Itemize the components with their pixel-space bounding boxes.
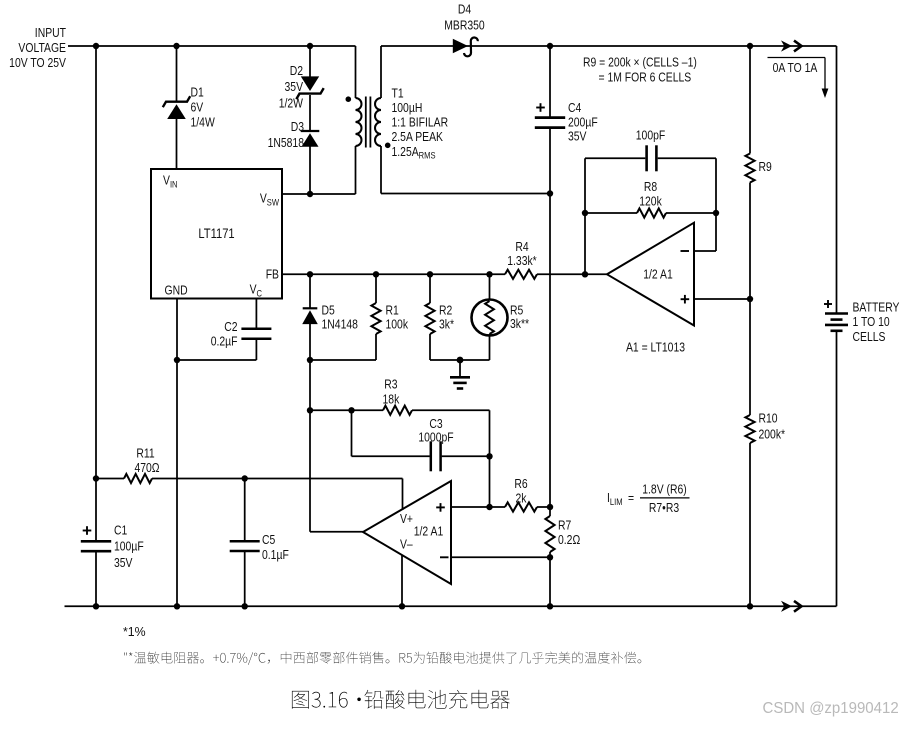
svg-text:D4: D4 — [458, 2, 472, 16]
svg-text:1/2 A1: 1/2 A1 — [643, 267, 672, 281]
svg-text:R9: R9 — [759, 160, 772, 174]
svg-text:0.2Ω: 0.2Ω — [558, 533, 580, 547]
svg-text:200k*: 200k* — [759, 428, 786, 442]
svg-text:D5: D5 — [322, 303, 336, 317]
svg-text:*1%: *1% — [123, 625, 146, 639]
svg-text:D2: D2 — [290, 64, 303, 78]
svg-text:VOLTAGE: VOLTAGE — [18, 41, 66, 55]
svg-text:D3: D3 — [291, 120, 305, 134]
svg-text:2.5A PEAK: 2.5A PEAK — [392, 130, 444, 144]
svg-text:100µF: 100µF — [114, 539, 144, 553]
svg-text:35V: 35V — [114, 556, 133, 570]
svg-text:LT1171: LT1171 — [198, 226, 234, 241]
svg-text:2k: 2k — [516, 491, 527, 505]
svg-text:R1: R1 — [386, 303, 399, 317]
svg-text:0A TO 1A: 0A TO 1A — [773, 61, 818, 75]
svg-text:C1: C1 — [114, 524, 127, 538]
svg-text:FB: FB — [266, 267, 279, 281]
svg-text:1000pF: 1000pF — [418, 430, 453, 444]
svg-text:R7: R7 — [558, 518, 571, 532]
svg-text:BATTERY: BATTERY — [853, 301, 900, 315]
svg-text:R6: R6 — [514, 477, 528, 491]
svg-text:R4: R4 — [515, 240, 529, 254]
svg-text:T1: T1 — [392, 86, 404, 100]
svg-text:1N5818: 1N5818 — [268, 136, 305, 150]
svg-text:120k: 120k — [639, 194, 662, 208]
svg-text:R10: R10 — [759, 411, 778, 425]
svg-text:INPUT: INPUT — [35, 26, 66, 40]
svg-text:C2: C2 — [224, 320, 237, 334]
svg-text:1N4148: 1N4148 — [322, 317, 359, 331]
svg-text:18k: 18k — [383, 392, 400, 406]
svg-text:CELLS: CELLS — [853, 330, 886, 344]
svg-text:MBR350: MBR350 — [444, 18, 485, 32]
svg-text:C5: C5 — [262, 533, 276, 547]
svg-text:200µF: 200µF — [568, 115, 598, 129]
svg-text:10V TO 25V: 10V TO 25V — [9, 56, 66, 70]
svg-text:CSDN @zp1990412: CSDN @zp1990412 — [763, 700, 899, 717]
svg-text:R3: R3 — [384, 378, 398, 392]
svg-text:0.1µF: 0.1µF — [262, 548, 289, 562]
svg-text:35V: 35V — [285, 80, 304, 94]
svg-text:1/2W: 1/2W — [279, 96, 304, 110]
svg-text:470Ω: 470Ω — [134, 461, 159, 475]
svg-text:1.33k*: 1.33k* — [507, 254, 537, 268]
svg-text:R5: R5 — [510, 303, 524, 317]
svg-text:R7•R3: R7•R3 — [649, 501, 680, 515]
svg-text:R8: R8 — [644, 180, 658, 194]
svg-text:100pF: 100pF — [636, 128, 665, 142]
svg-text:100k: 100k — [386, 317, 409, 331]
svg-text:R11: R11 — [136, 446, 154, 460]
svg-text:R2: R2 — [439, 303, 452, 317]
svg-text:3k*: 3k* — [439, 317, 454, 331]
svg-text:1 TO 10: 1 TO 10 — [853, 315, 891, 329]
svg-text:1/2 A1: 1/2 A1 — [414, 524, 443, 538]
svg-text:V+: V+ — [400, 512, 413, 526]
svg-text:=: = — [628, 491, 634, 505]
svg-text:V–: V– — [400, 537, 413, 551]
svg-text:100µH: 100µH — [392, 101, 423, 115]
svg-text:R9 = 200k × (CELLS –1): R9 = 200k × (CELLS –1) — [583, 55, 697, 69]
svg-text:A1 = LT1013: A1 = LT1013 — [626, 340, 685, 354]
svg-text:C4: C4 — [568, 101, 582, 115]
svg-text:1/4W: 1/4W — [191, 115, 216, 129]
svg-text:0.2µF: 0.2µF — [211, 334, 238, 348]
svg-text:GND: GND — [165, 283, 188, 297]
svg-text:1:1 BIFILAR: 1:1 BIFILAR — [392, 115, 449, 129]
svg-text:1.8V (R6): 1.8V (R6) — [642, 482, 687, 496]
svg-text:= 1M FOR 6 CELLS: = 1M FOR 6 CELLS — [599, 70, 692, 84]
svg-text:6V: 6V — [191, 100, 204, 114]
svg-text:35V: 35V — [568, 129, 587, 143]
svg-text:3k**: 3k** — [510, 317, 529, 331]
svg-text:C3: C3 — [429, 417, 443, 431]
svg-text:D1: D1 — [191, 85, 204, 99]
